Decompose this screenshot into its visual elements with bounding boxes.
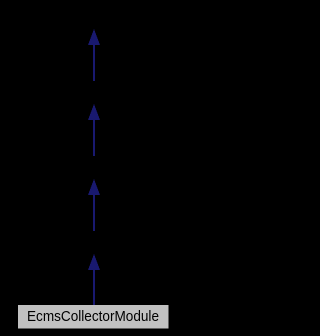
edge arrow 1 (top) — [88, 29, 100, 81]
edge arrow 2 — [88, 104, 100, 156]
edge arrow 4 (bottom, from node box) — [88, 254, 100, 306]
node box EcmsCollectorModule — [18, 305, 169, 329]
inheritance graph: EcmsCollectorModule — [0, 0, 188, 336]
edge arrow 3 — [88, 179, 100, 231]
svg-text:EcmsCollectorModule: EcmsCollectorModule — [27, 309, 159, 325]
